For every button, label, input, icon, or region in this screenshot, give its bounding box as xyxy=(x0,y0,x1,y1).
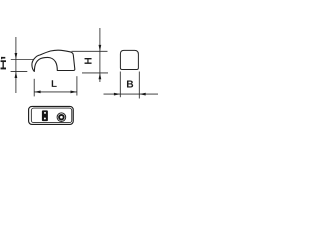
dimension L right extension line xyxy=(76,76,78,95)
dimension H bottom tick line xyxy=(82,72,108,74)
dimension H1 vertical line xyxy=(15,37,17,93)
label B xyxy=(127,81,133,88)
dimension B left extension line xyxy=(119,72,121,98)
nail slot upper dot xyxy=(44,112,46,114)
dimension H1 arrow up xyxy=(15,72,18,78)
dimension B right extension line xyxy=(138,72,140,99)
dimension B arrow pointing right xyxy=(114,93,120,96)
dimension H top tick line xyxy=(72,50,108,52)
dimension B arrow pointing left xyxy=(139,93,145,96)
dimension H1 bottom tick line xyxy=(11,71,28,73)
label L xyxy=(52,80,57,87)
dimension H1 arrow down xyxy=(15,53,18,59)
dimension L arrow right xyxy=(71,91,77,94)
washer outer circle xyxy=(57,113,66,122)
label H1 (rotated, clipped at image edge) xyxy=(1,57,6,70)
dimension L line xyxy=(34,91,77,93)
plan view nail slot (filled) xyxy=(42,110,48,121)
dimension B line xyxy=(104,93,159,95)
dimension H vertical line xyxy=(99,28,101,82)
end view rounded square xyxy=(120,50,138,69)
dimension L left extension line xyxy=(33,79,35,97)
dimension H arrow down xyxy=(99,45,102,51)
dimension L arrow left xyxy=(34,91,40,94)
dimension H1 top tick line xyxy=(11,59,34,61)
nail slot lower dot xyxy=(44,118,46,120)
plan view inner plate outline xyxy=(31,108,71,123)
dimension H arrow up xyxy=(99,73,102,79)
label H (rotated) xyxy=(85,58,92,64)
clamp side view outline xyxy=(32,50,75,71)
washer dark ring xyxy=(59,115,64,120)
plan view outer plate outline xyxy=(29,106,74,124)
